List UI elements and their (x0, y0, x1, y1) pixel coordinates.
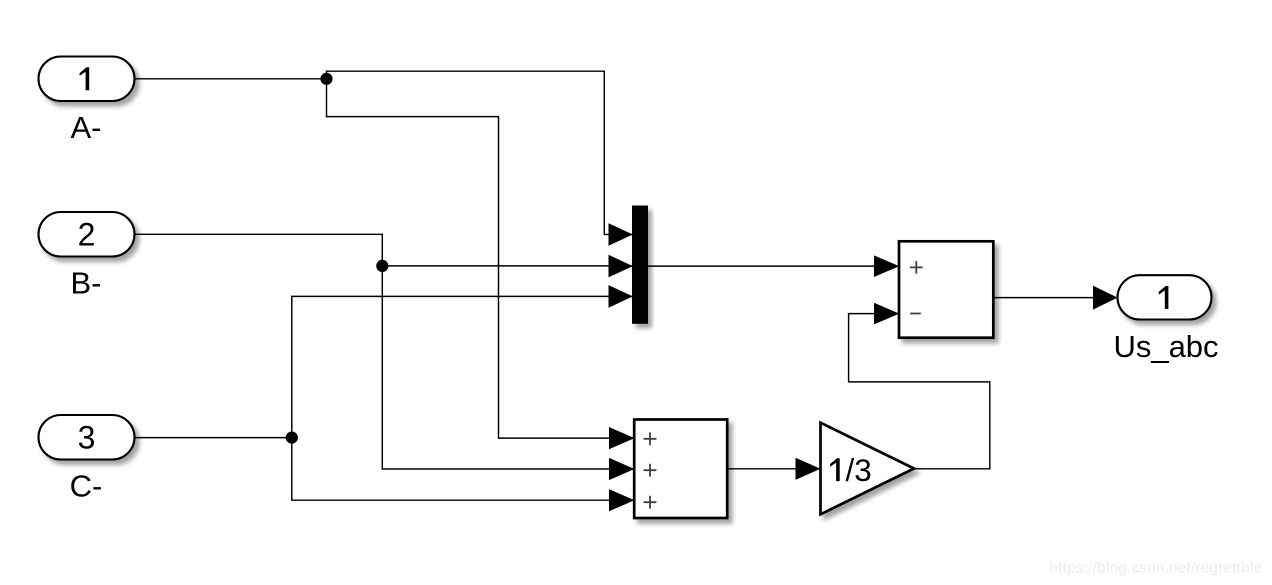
wire junction A to adder input 1 (327, 79, 635, 438)
svg-text:C-: C- (70, 469, 103, 504)
mux block (609, 206, 649, 324)
svg-text:A-: A- (71, 110, 102, 145)
svg-text:3: 3 (78, 420, 96, 456)
input port 1 (39, 57, 135, 102)
subtract block U1 (874, 241, 993, 337)
svg-text:https://blog.csdn.net/regrettb: https://blog.csdn.net/regrettble (1049, 560, 1262, 577)
svg-text:Us_abc: Us_abc (1113, 329, 1218, 364)
junction dot B (376, 260, 388, 272)
wire port3 to junction (135, 437, 292, 439)
label Us_abc (1113, 329, 1218, 364)
wire subtract output to outport (994, 297, 1095, 299)
gain block 1/3 (796, 423, 915, 515)
wire junction B to adder input 2 (382, 266, 634, 469)
input port 2 (39, 212, 135, 257)
wire adder output to gain input (728, 468, 797, 470)
wire port1 to junction (135, 78, 327, 80)
watermark (1049, 560, 1262, 577)
output arrowhead (1093, 286, 1118, 310)
wire junction C to mux input 3 (292, 296, 633, 437)
wire junction C to adder input 3 (292, 438, 635, 501)
label A- (71, 110, 102, 145)
input port 3 (39, 415, 135, 460)
junction dot A (320, 73, 332, 85)
output port 1 (1118, 275, 1212, 319)
wire port2 to junction (135, 234, 383, 266)
label B- (71, 266, 102, 301)
wire junction B to mux input 2 (382, 265, 633, 267)
svg-text:B-: B- (71, 266, 102, 301)
label C- (70, 469, 103, 504)
wire gain output feedback to subtract input 2 (849, 314, 990, 469)
svg-text:/3: /3 (846, 452, 872, 488)
junction dot C (286, 432, 298, 444)
adder block U2 (609, 420, 727, 519)
wire junction A to mux input 1 (327, 71, 633, 234)
wire mux output to subtract input 1 (648, 265, 875, 267)
svg-text:2: 2 (78, 217, 96, 253)
